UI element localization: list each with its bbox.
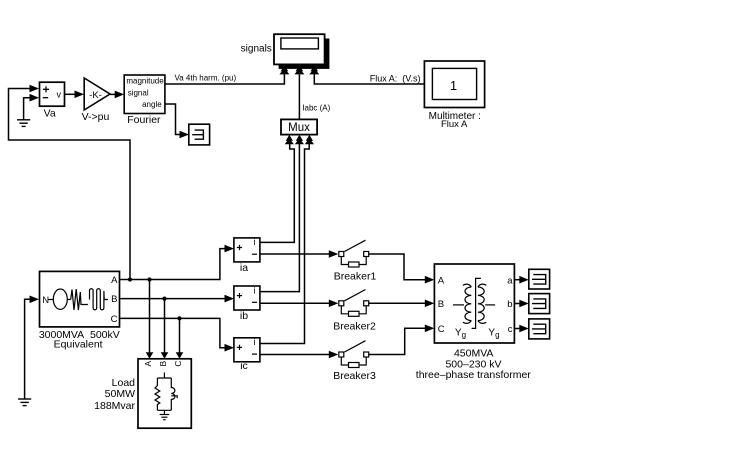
svg-text:ib: ib <box>240 310 248 322</box>
current measurement ib <box>234 285 260 322</box>
svg-text:C: C <box>173 361 183 367</box>
wire transformer b to terminator <box>514 300 528 308</box>
svg-text:Flux A: (V.s): Flux A: (V.s) <box>370 74 421 84</box>
svg-text:v: v <box>56 89 61 99</box>
svg-text:ic: ic <box>240 360 248 372</box>
voltage measurement Va <box>40 82 65 119</box>
scope input ports <box>279 65 319 75</box>
svg-text:three–phase transformer: three–phase transformer <box>416 369 531 381</box>
svg-text:Fourier: Fourier <box>127 114 161 126</box>
wire ia to Breaker1 <box>260 250 338 258</box>
Mux input ports <box>285 135 314 145</box>
breaker Breaker2 <box>333 290 376 333</box>
terminator c <box>529 319 550 339</box>
wire node B down to load B <box>161 299 169 359</box>
svg-text:i: i <box>254 285 256 295</box>
svg-text:B: B <box>111 294 117 305</box>
svg-text:Load: Load <box>112 377 136 389</box>
svg-text:1: 1 <box>450 78 457 93</box>
wire Fourier angle to terminator <box>165 104 189 138</box>
svg-text:50MW: 50MW <box>105 388 135 400</box>
breaker Breaker1 <box>334 240 377 282</box>
wire to source N input with ground <box>25 296 39 400</box>
wire source B to ib with junction <box>120 295 235 303</box>
Fourier block <box>124 75 165 126</box>
wire transformer a to terminator <box>514 276 528 284</box>
svg-text:c: c <box>508 324 513 335</box>
ground symbol lower left <box>18 399 31 406</box>
terminator T1 <box>189 124 210 145</box>
source block 3000MVA 500kV Equivalent <box>39 271 120 350</box>
svg-text:signals: signals <box>241 44 272 55</box>
breaker Breaker3 <box>333 341 376 383</box>
ground symbol under Va <box>17 120 30 127</box>
wire multimeter to scope, label Flux A: (V.s) <box>314 74 424 85</box>
wire source C to ic with junction <box>120 316 235 351</box>
svg-text:Mux: Mux <box>288 122 310 134</box>
svg-text:i: i <box>254 237 256 247</box>
svg-text:ia: ia <box>240 262 248 274</box>
svg-text:188Mvar: 188Mvar <box>94 400 135 412</box>
svg-text:magnitude: magnitude <box>126 77 164 86</box>
wire Fourier magnitude to scope, label Va 4th harm. (pu) <box>165 74 285 85</box>
scope signals <box>241 34 325 64</box>
wire ic i-output to Mux input 3 <box>260 144 309 344</box>
svg-text:Breaker2: Breaker2 <box>333 320 376 332</box>
terminator b <box>529 294 550 314</box>
current measurement ia <box>234 237 260 274</box>
svg-text:A: A <box>438 275 445 286</box>
wire transformer c to terminator <box>514 325 528 333</box>
svg-text:B: B <box>158 360 168 366</box>
wire Breaker2 to transformer B <box>369 300 435 308</box>
svg-text:Breaker1: Breaker1 <box>334 271 377 283</box>
wire ib to Breaker2 <box>260 300 338 308</box>
svg-text:Va: Va <box>44 107 56 119</box>
terminator a <box>529 269 550 289</box>
wire ic to Breaker3 <box>260 351 338 359</box>
svg-text:C: C <box>111 314 118 325</box>
load block 50MW 188Mvar <box>94 359 191 428</box>
svg-text:a: a <box>507 275 513 286</box>
svg-text:B: B <box>438 299 444 310</box>
wire source A to ia with junctions <box>120 245 235 282</box>
svg-text:A: A <box>143 360 153 366</box>
svg-text:N: N <box>42 295 49 306</box>
wire feedback from node A to Va + input <box>9 85 131 280</box>
svg-text:C: C <box>438 324 445 335</box>
svg-text:b: b <box>507 299 512 310</box>
wire Va to gain <box>65 91 85 99</box>
svg-text:Flux A: Flux A <box>441 119 468 130</box>
wire node C down to load C <box>176 318 184 358</box>
wire gain to Fourier <box>110 91 124 99</box>
svg-text:Breaker3: Breaker3 <box>333 370 376 382</box>
wire Breaker1 to transformer A <box>369 254 435 284</box>
svg-text:V->pu: V->pu <box>82 111 110 123</box>
Mux block <box>281 119 317 134</box>
svg-text:Equivalent: Equivalent <box>54 339 103 351</box>
scope signals (shadow) <box>279 39 330 69</box>
multimeter Flux A <box>424 61 484 130</box>
three-phase transformer block <box>416 264 531 381</box>
wire node A down to load A <box>146 280 154 359</box>
wire Va - input to ground <box>24 94 39 120</box>
gain V->pu <box>82 78 110 123</box>
svg-text:A: A <box>111 275 118 286</box>
wire Mux to scope, label Iabc (A) <box>299 74 330 119</box>
current measurement ic <box>234 337 260 372</box>
wire ib i-output to Mux input 2 <box>260 144 299 292</box>
wire ia i-output to Mux input 1 <box>260 144 294 243</box>
svg-text:signal: signal <box>128 89 149 98</box>
svg-text:-K-: -K- <box>89 90 102 101</box>
svg-text:angle: angle <box>142 100 162 109</box>
svg-text:Va 4th harm. (pu): Va 4th harm. (pu) <box>175 74 237 83</box>
svg-text:Iabc (A): Iabc (A) <box>302 103 330 112</box>
svg-text:i: i <box>254 337 256 347</box>
wire Breaker3 to transformer C <box>369 325 435 355</box>
